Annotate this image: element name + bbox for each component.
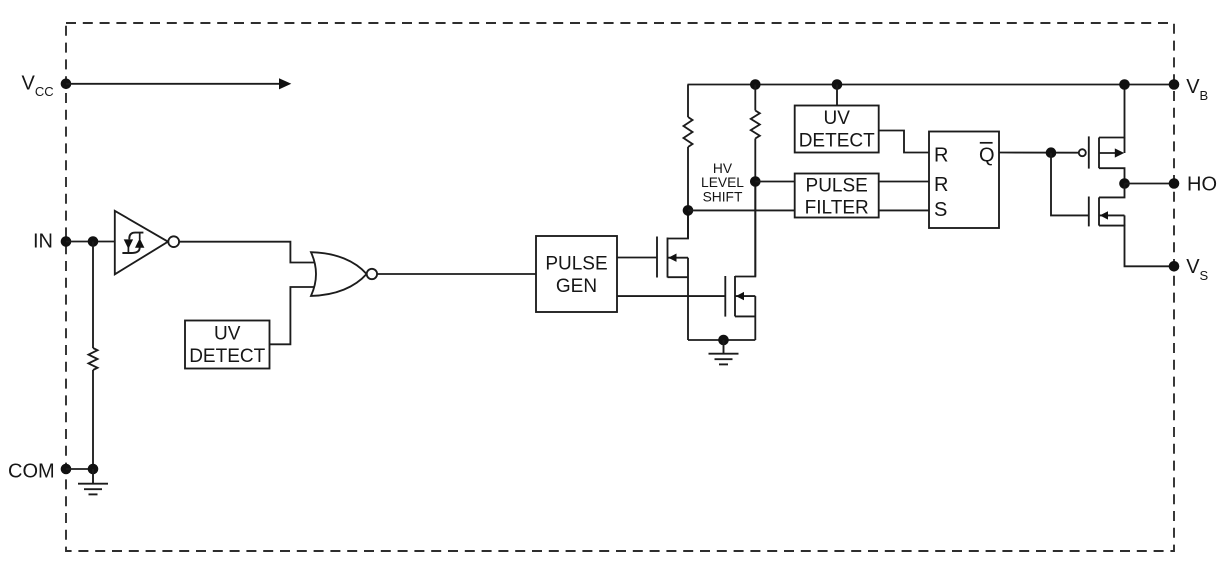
svg-text:PULSE: PULSE <box>806 176 868 197</box>
COM pin dot <box>61 464 72 475</box>
UV DETECT block (high side) <box>795 106 879 153</box>
wire IN node down to resistor <box>92 242 94 349</box>
node rail to Q1 <box>1119 79 1130 90</box>
wire PULSE FILTER R out <box>879 181 929 183</box>
UV DETECT block (input side) <box>185 321 270 369</box>
svg-text:S: S <box>934 199 947 221</box>
svg-text:SHIFT: SHIFT <box>703 189 743 204</box>
overbar of Q <box>980 142 993 144</box>
wire rail down to resistor RL2 <box>754 85 756 111</box>
svg-text:DETECT: DETECT <box>189 346 265 367</box>
wire UV2 out to latch R <box>879 131 929 153</box>
node ground junction <box>718 335 729 346</box>
wire COM <box>66 468 93 470</box>
node HO junction <box>1119 178 1130 189</box>
wire PULSE FILTER S out <box>879 209 929 211</box>
svg-text:LEVEL: LEVEL <box>701 175 744 190</box>
node IN branch <box>88 236 99 247</box>
HO pin dot <box>1169 178 1180 189</box>
wire RL1 to M1 drain <box>687 147 689 239</box>
IN pin dot <box>61 236 72 247</box>
svg-text:R: R <box>934 145 948 167</box>
wire rail to UV2 <box>836 85 838 106</box>
svg-text:UV: UV <box>214 324 241 345</box>
svg-text:PULSE: PULSE <box>545 253 607 274</box>
node rail to RL2 <box>750 79 761 90</box>
wire PULSE GEN bottom out to M2 gate <box>617 295 725 297</box>
wire PULSE GEN top out to M1 gate <box>617 257 657 259</box>
wire latch Q out <box>999 152 1079 154</box>
hysteresis symbol <box>122 233 144 253</box>
VB top rail <box>688 84 1175 86</box>
svg-text:IN: IN <box>33 231 53 253</box>
svg-text:COM: COM <box>8 460 55 482</box>
svg-text:Q: Q <box>979 145 995 167</box>
transistor M2 (level shift) <box>725 182 755 340</box>
wire R row to PULSE FILTER <box>755 181 794 183</box>
wire NOR out to PULSE GEN <box>377 273 536 275</box>
PULSE GEN block <box>536 236 617 312</box>
transistor M1 (level shift) <box>657 211 688 340</box>
wire RL2 to M2 drain <box>754 139 756 277</box>
node COM junction <box>88 464 99 475</box>
wire rail down to resistor RL1 <box>687 85 689 118</box>
transistor Q2 (pull-down NMOS) <box>1089 184 1174 267</box>
VB pin dot <box>1169 79 1180 90</box>
wire gate drive down to NMOS gate <box>1051 153 1089 216</box>
svg-text:DETECT: DETECT <box>799 131 875 152</box>
ground level shift <box>709 340 739 364</box>
node rail to UV2 <box>832 79 843 90</box>
label HV LEVEL SHIFT <box>701 161 744 204</box>
VCC internal supply arrow <box>66 78 291 89</box>
VS pin dot <box>1169 261 1180 272</box>
svg-text:UV: UV <box>823 108 850 129</box>
wire HO <box>1125 183 1175 185</box>
svg-text:HO: HO <box>1187 173 1217 195</box>
wire S row to PULSE FILTER <box>688 209 795 211</box>
node gate drive <box>1046 147 1057 158</box>
svg-text:HV: HV <box>713 161 733 176</box>
PULSE FILTER block <box>795 174 879 218</box>
ground COM <box>78 469 108 494</box>
svg-text:GEN: GEN <box>556 276 597 297</box>
transistor Q1 (pull-up PMOS) <box>1079 85 1125 184</box>
node S row junction <box>683 205 694 216</box>
VCC pin dot <box>61 79 72 90</box>
NOR gate G1 <box>311 252 377 296</box>
resistor RL1 <box>684 117 693 147</box>
node R row junction <box>750 176 761 187</box>
svg-text:R: R <box>934 174 948 196</box>
resistor input pulldown <box>89 348 98 370</box>
latch U2 <box>929 132 999 229</box>
wire resistor to COM <box>92 370 94 469</box>
svg-text:FILTER: FILTER <box>805 197 869 218</box>
wire IN to inverter <box>66 241 115 243</box>
resistor RL2 <box>751 111 760 139</box>
schmitt inverter U1 <box>115 211 179 274</box>
wire sources to ground rail <box>688 339 755 341</box>
wire inverter out to NOR top input <box>179 242 316 263</box>
wire UV1 out to NOR bottom input <box>270 287 317 344</box>
